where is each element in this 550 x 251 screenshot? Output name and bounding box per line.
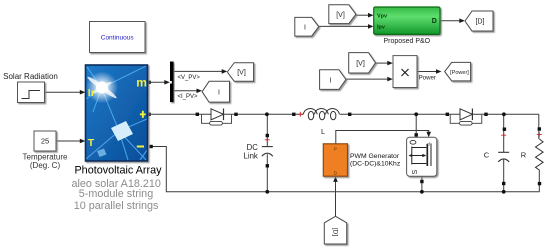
svg-text:Proposed P&O: Proposed P&O	[383, 38, 430, 45]
svg-text:(DC-DC)&10Khz: (DC-DC)&10Khz	[350, 160, 401, 167]
svg-text:Photovoltaic Array: Photovoltaic Array	[74, 165, 162, 177]
svg-text:Continuous: Continuous	[101, 35, 135, 42]
svg-text:I: I	[218, 90, 220, 97]
svg-text:R: R	[521, 151, 527, 160]
svg-text:I: I	[330, 77, 332, 84]
svg-text:10 parallel strings: 10 parallel strings	[74, 200, 159, 212]
svg-text:C: C	[484, 151, 490, 160]
svg-text:25: 25	[41, 137, 49, 146]
svg-text:<I_PV>: <I_PV>	[178, 94, 199, 100]
svg-text:[Power]: [Power]	[450, 70, 469, 76]
svg-text:[V]: [V]	[356, 61, 365, 68]
svg-text:Ipv: Ipv	[377, 25, 386, 31]
svg-text:ch: ch	[427, 142, 432, 147]
svg-text:5-module string: 5-module string	[79, 188, 153, 200]
svg-text:D: D	[432, 18, 437, 25]
svg-text:[V]: [V]	[336, 12, 345, 19]
svg-text:[V]: [V]	[237, 70, 246, 77]
svg-text:Link: Link	[244, 151, 258, 160]
svg-text:PWM Generator: PWM Generator	[350, 153, 400, 160]
svg-text:L: L	[321, 127, 325, 136]
svg-text:[D]: [D]	[476, 19, 485, 26]
svg-text:T: T	[88, 137, 95, 149]
svg-text:S: S	[412, 170, 419, 175]
svg-text:Solar Radiation: Solar Radiation	[3, 72, 58, 81]
svg-text:Vpv: Vpv	[377, 13, 388, 19]
svg-text:<V_PV>: <V_PV>	[178, 75, 201, 81]
svg-text:m: m	[136, 75, 147, 89]
svg-text:[D]: [D]	[331, 228, 338, 237]
svg-text:P: P	[334, 147, 337, 152]
svg-text:(Deg. C): (Deg. C)	[30, 161, 61, 170]
svg-text:Ir: Ir	[88, 87, 95, 99]
svg-text:I: I	[304, 24, 306, 31]
svg-text:Power: Power	[419, 76, 436, 82]
